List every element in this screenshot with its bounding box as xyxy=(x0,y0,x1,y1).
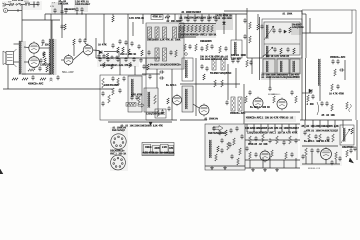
label legend haze xyxy=(142,143,174,156)
capacitor C58 xyxy=(139,58,142,63)
resistor R79 xyxy=(225,130,228,136)
arrow sym xyxy=(213,126,223,131)
wire xyxy=(14,61,20,63)
label labels xyxy=(162,147,167,149)
wire xyxy=(103,14,105,45)
label cap values xyxy=(64,9,76,11)
svg-text:4.7K: 4.7K xyxy=(102,43,107,46)
label MODEL LV xyxy=(204,119,218,121)
capacitor C37 xyxy=(224,46,227,51)
transformer T12 xyxy=(280,61,282,72)
tuner box xyxy=(262,19,302,58)
label labels xyxy=(250,106,270,109)
tube V8 xyxy=(277,98,287,111)
wire xyxy=(305,156,307,164)
wire xyxy=(73,45,75,56)
terminal E1 xyxy=(185,53,188,56)
resistor R48 xyxy=(331,84,334,91)
text MODEL LV3 xyxy=(308,168,321,170)
text 5BLL AMP xyxy=(62,71,74,74)
B+ arrow xyxy=(149,122,156,128)
wire xyxy=(295,124,297,132)
capacitor C54 xyxy=(106,57,109,62)
resistor R12 xyxy=(117,47,120,53)
resistor R69 xyxy=(245,96,248,103)
resistor R13 xyxy=(64,24,67,30)
IF transformer T3 xyxy=(231,40,242,58)
capacitor C40 xyxy=(260,24,263,29)
capacitor C77 xyxy=(161,109,164,114)
resistor R92 xyxy=(346,150,349,157)
capacitor C11 xyxy=(31,75,34,80)
resistor R53 xyxy=(129,63,132,68)
label dense area haze xyxy=(178,33,216,38)
wire xyxy=(21,5,23,11)
transformer T10 xyxy=(185,60,188,78)
svg-text:1K: 1K xyxy=(133,54,136,56)
capacitor C98 xyxy=(326,136,329,141)
wire xyxy=(104,51,119,53)
resistor R91 xyxy=(305,148,308,156)
wire xyxy=(327,120,329,128)
legend table xyxy=(142,143,174,156)
wire xyxy=(274,124,276,132)
capacitor C81 xyxy=(220,148,223,153)
label value row xyxy=(245,127,300,130)
svg-text:220K: 220K xyxy=(63,4,69,6)
label value row2 xyxy=(247,131,298,134)
capacitor C5 xyxy=(75,7,78,12)
label tube type xyxy=(41,44,49,46)
capacitor C6 xyxy=(80,7,83,12)
chassis frame right xyxy=(355,10,357,120)
capacitor C19 xyxy=(116,56,119,60)
wire xyxy=(21,4,25,6)
capacitor C47 xyxy=(336,59,339,64)
label labels xyxy=(306,104,314,106)
wire xyxy=(312,120,314,128)
wire xyxy=(156,69,158,88)
resistor R93 xyxy=(351,128,354,134)
transformer T14 xyxy=(209,140,212,158)
wire xyxy=(245,123,300,125)
label labels xyxy=(150,63,182,66)
transformer T4 xyxy=(266,25,268,38)
wire xyxy=(251,58,253,74)
svg-text:1K: 1K xyxy=(267,107,270,109)
wire xyxy=(22,73,52,75)
interlock J1 xyxy=(25,3,30,5)
wire xyxy=(269,76,271,88)
label dense area haze xyxy=(182,86,194,112)
transformer T13 xyxy=(293,61,295,72)
capacitor C56 xyxy=(124,57,127,62)
label dense area haze xyxy=(97,57,139,67)
wire xyxy=(24,46,29,49)
wire xyxy=(132,22,134,36)
tube V5 xyxy=(172,94,181,106)
legend caption band xyxy=(143,153,174,156)
wire xyxy=(45,13,247,15)
wire xyxy=(8,10,23,12)
svg-text:MODEL LV3: MODEL LV3 xyxy=(308,168,321,170)
wire xyxy=(302,13,306,15)
resistor R51 xyxy=(103,63,106,68)
wire xyxy=(134,66,136,75)
resistor R65 xyxy=(214,80,217,87)
wire xyxy=(61,9,63,14)
detector diode D2 xyxy=(309,89,312,93)
junction xyxy=(76,13,77,14)
wire xyxy=(300,119,352,121)
capacitor C68 xyxy=(167,106,170,111)
resistor R36 xyxy=(195,44,198,51)
rectifier D1 xyxy=(99,51,102,55)
resistor R54 xyxy=(147,64,150,70)
svg-text:AVC: AVC xyxy=(341,56,346,59)
svg-text:5BLL AMP: 5BLL AMP xyxy=(62,71,74,74)
wire xyxy=(195,58,197,116)
resistor R63 xyxy=(221,57,225,70)
wire xyxy=(335,159,337,164)
wire xyxy=(245,139,268,141)
resistor R24 xyxy=(128,49,131,55)
wire xyxy=(112,14,114,16)
resistor R66 xyxy=(221,80,224,87)
capacitor C31 xyxy=(200,17,203,22)
divider xyxy=(264,43,300,45)
wire xyxy=(305,58,307,120)
junction xyxy=(223,13,224,14)
IF T box C xyxy=(290,59,300,74)
capacitor C62 xyxy=(111,76,114,81)
wire xyxy=(174,14,176,20)
filter resistor box xyxy=(126,103,136,107)
tube V1 xyxy=(29,41,39,54)
capacitor C32 xyxy=(207,17,210,22)
resistor R75 xyxy=(233,138,236,145)
wire xyxy=(61,59,64,61)
capacitor C17 xyxy=(102,54,105,59)
resistor R59 xyxy=(138,96,141,104)
resistor R44 xyxy=(280,48,283,54)
label labels xyxy=(330,56,346,59)
svg-text:6SK7: 6SK7 xyxy=(195,12,201,14)
label osc vals xyxy=(342,146,354,149)
capacitor C20 xyxy=(111,43,114,48)
resistor R21 xyxy=(163,48,167,61)
capacitor C42 xyxy=(272,28,275,33)
capacitor C99 xyxy=(310,148,313,153)
svg-text:MODEL L: MODEL L xyxy=(272,94,282,96)
capacitor C50 xyxy=(320,101,323,106)
bracket xyxy=(317,102,319,115)
svg-text:470K: 470K xyxy=(339,92,345,95)
capacitor C43 xyxy=(278,28,281,33)
wire xyxy=(167,14,169,20)
resistor R85 xyxy=(249,152,252,159)
capacitor C8 xyxy=(41,39,44,44)
label caption xyxy=(246,117,294,120)
wire xyxy=(119,58,121,75)
label chain labels xyxy=(12,0,24,2)
wire xyxy=(235,14,237,40)
wire xyxy=(302,92,312,94)
capacitor C85 xyxy=(240,134,243,139)
osc section box xyxy=(146,23,184,69)
label output transformer haze xyxy=(18,41,26,75)
resistor R52 xyxy=(111,64,114,69)
label value row xyxy=(301,126,339,128)
audio box xyxy=(100,75,146,120)
tuning arrow xyxy=(264,26,274,40)
resistor R81 xyxy=(249,136,252,144)
label T3 label xyxy=(231,58,242,61)
capacitor C101 xyxy=(349,148,352,153)
capacitor C21 xyxy=(60,24,63,29)
tube V4 xyxy=(83,44,93,57)
wire xyxy=(305,14,307,58)
resistor R29 xyxy=(191,25,194,32)
wire xyxy=(301,11,303,14)
capacitor C83 xyxy=(229,128,232,133)
label PL xyxy=(58,1,69,6)
resistor R71 xyxy=(273,96,276,103)
wire xyxy=(223,14,225,20)
wire xyxy=(7,65,9,90)
wire xyxy=(319,85,321,101)
wire xyxy=(3,88,113,90)
radio box xyxy=(205,124,245,170)
label box label xyxy=(282,13,293,15)
svg-text:2.2K: 2.2K xyxy=(223,59,228,61)
terminal strip label box xyxy=(151,15,163,20)
label dense area haze xyxy=(178,15,216,23)
frame dash v xyxy=(351,10,353,33)
wire xyxy=(179,23,216,25)
wire xyxy=(267,124,269,132)
resistor R23 xyxy=(122,47,125,53)
wire xyxy=(118,52,120,58)
resistor R42 xyxy=(246,60,249,67)
wire xyxy=(51,20,53,42)
wire xyxy=(201,14,203,19)
label labels xyxy=(129,17,145,20)
tube V6 xyxy=(199,104,209,117)
label dense area haze xyxy=(291,23,301,35)
capacitor C89 xyxy=(254,136,257,141)
osc coil box xyxy=(340,125,354,145)
label labels2 xyxy=(261,73,300,79)
svg-text:OSC: OSC xyxy=(227,73,232,75)
capacitor C36 xyxy=(210,44,213,49)
label radio box haze xyxy=(205,124,246,170)
label top labels haze xyxy=(51,2,63,13)
resistor R3 xyxy=(43,52,46,58)
driver box xyxy=(144,88,158,112)
capacitor C65 xyxy=(148,74,151,79)
text SW xyxy=(8,2,11,4)
capacitor C9 xyxy=(39,58,42,63)
resistor R82 xyxy=(262,134,265,142)
capacitor C12 xyxy=(50,78,53,82)
resistor R11 xyxy=(106,53,109,59)
wire xyxy=(302,145,338,147)
capacitor C63 xyxy=(122,76,125,81)
capacitor C46 xyxy=(331,59,334,64)
resistor R35 xyxy=(184,44,187,51)
svg-text:10K: 10K xyxy=(263,144,268,146)
resistor R26 xyxy=(179,25,182,32)
wire xyxy=(65,13,67,14)
resistor R62 xyxy=(212,57,216,70)
capacitor C7 xyxy=(42,51,45,56)
resistor R16 xyxy=(155,27,159,38)
capacitor C96 xyxy=(303,130,306,135)
label driver box haze xyxy=(144,88,159,112)
resistor R89 xyxy=(319,134,322,142)
resistor R67 xyxy=(231,97,235,111)
rectifier arrow xyxy=(138,103,144,107)
capacitor C34 xyxy=(188,44,191,49)
IF T box A xyxy=(263,59,275,74)
capacitor C60 xyxy=(101,91,104,96)
resistor R70 xyxy=(295,96,298,103)
tube V2 xyxy=(29,55,40,69)
wire xyxy=(227,64,229,100)
resistor R22 xyxy=(175,50,178,57)
wire xyxy=(302,32,352,34)
filter box xyxy=(155,109,166,118)
resistor R27 xyxy=(183,25,186,32)
label IF resistor row haze xyxy=(178,24,216,35)
capacitor C75 xyxy=(268,86,271,91)
capacitor C1 xyxy=(36,1,39,6)
capacitor C105 xyxy=(338,156,341,161)
tube socket S1 xyxy=(111,134,126,149)
text MODEL L xyxy=(272,94,282,96)
label labels xyxy=(104,85,120,87)
text MODEL xyxy=(268,94,277,96)
wire xyxy=(96,57,160,59)
wire xyxy=(246,8,248,58)
chassis frame top xyxy=(302,9,356,11)
wire xyxy=(193,104,199,108)
svg-text:455KC: 455KC xyxy=(347,146,354,149)
label bottom row values xyxy=(178,34,217,37)
wire xyxy=(93,49,99,52)
wire xyxy=(73,51,83,60)
wire xyxy=(180,119,207,121)
capacitor C59 xyxy=(142,64,145,69)
resistor R19 xyxy=(179,27,183,38)
wire xyxy=(85,14,87,40)
resistor R37 xyxy=(206,44,209,51)
capacitor C93 xyxy=(254,152,257,157)
svg-text:100K: 100K xyxy=(241,55,247,57)
transformer T1 xyxy=(19,41,21,74)
wire xyxy=(245,159,300,161)
resistor R38 xyxy=(219,46,222,53)
resistor R94 xyxy=(335,152,338,159)
resistor R56 xyxy=(117,78,120,85)
capacitor C97 xyxy=(314,134,317,139)
IF T box B xyxy=(277,59,289,74)
tube V10 xyxy=(321,147,332,161)
label legend caption xyxy=(143,152,175,155)
transformer T5 xyxy=(266,46,268,57)
label mid row xyxy=(304,140,330,143)
resistor R78 xyxy=(237,158,240,165)
resistor R15 xyxy=(148,27,152,38)
capacitor C41 xyxy=(249,60,252,65)
transformer T3 xyxy=(234,42,237,55)
capacitor C100 xyxy=(316,148,319,153)
resistor R83 xyxy=(276,136,279,144)
capacitor C24 xyxy=(118,39,121,44)
label labels xyxy=(329,92,345,95)
resistor R25 xyxy=(141,50,144,56)
ground xyxy=(263,168,267,171)
transformer T9 xyxy=(185,89,188,109)
wire xyxy=(295,158,297,168)
label labels xyxy=(146,112,165,115)
capacitor C13 xyxy=(56,75,59,80)
wire xyxy=(127,14,129,58)
capacitor C38 xyxy=(243,18,246,23)
capacitor C52 xyxy=(339,68,344,71)
capacitor C82 xyxy=(235,126,238,131)
resistor R80 xyxy=(217,146,220,152)
capacitor C30 xyxy=(193,17,196,22)
label ANT xyxy=(75,1,91,7)
svg-text:AVC: AVC xyxy=(39,82,44,85)
label values xyxy=(28,82,44,85)
IF transformer T5 xyxy=(182,58,193,81)
wire xyxy=(76,12,78,14)
wire xyxy=(95,38,97,58)
svg-text:47K: 47K xyxy=(159,125,164,128)
label dense area haze xyxy=(128,76,143,112)
wire xyxy=(6,4,10,6)
svg-text:.0005: .0005 xyxy=(146,126,152,128)
wire xyxy=(246,124,248,132)
tube V3 xyxy=(64,54,73,66)
resistor R73 xyxy=(127,103,135,106)
wire xyxy=(319,120,321,128)
capacitor C66 xyxy=(159,70,164,73)
resistor R90 xyxy=(332,134,335,142)
ground xyxy=(275,168,279,171)
resistor R18 xyxy=(173,27,177,38)
capacitor C45 xyxy=(286,47,289,52)
label dense area haze xyxy=(244,126,298,168)
capacitor C74 xyxy=(248,90,251,95)
capacitor C48 xyxy=(311,94,314,99)
capacitor C104 xyxy=(330,160,333,165)
wire xyxy=(223,26,225,34)
label value row2b xyxy=(306,129,339,132)
wire xyxy=(245,167,300,169)
label labels xyxy=(200,41,212,43)
tuner inner box xyxy=(264,22,300,55)
junction xyxy=(81,13,82,14)
speaker SP1 xyxy=(3,49,17,67)
capacitor C70 xyxy=(236,58,239,63)
AC plug P1 xyxy=(3,3,6,6)
capacitor C18 xyxy=(111,56,114,60)
resistor R39 xyxy=(249,22,252,29)
